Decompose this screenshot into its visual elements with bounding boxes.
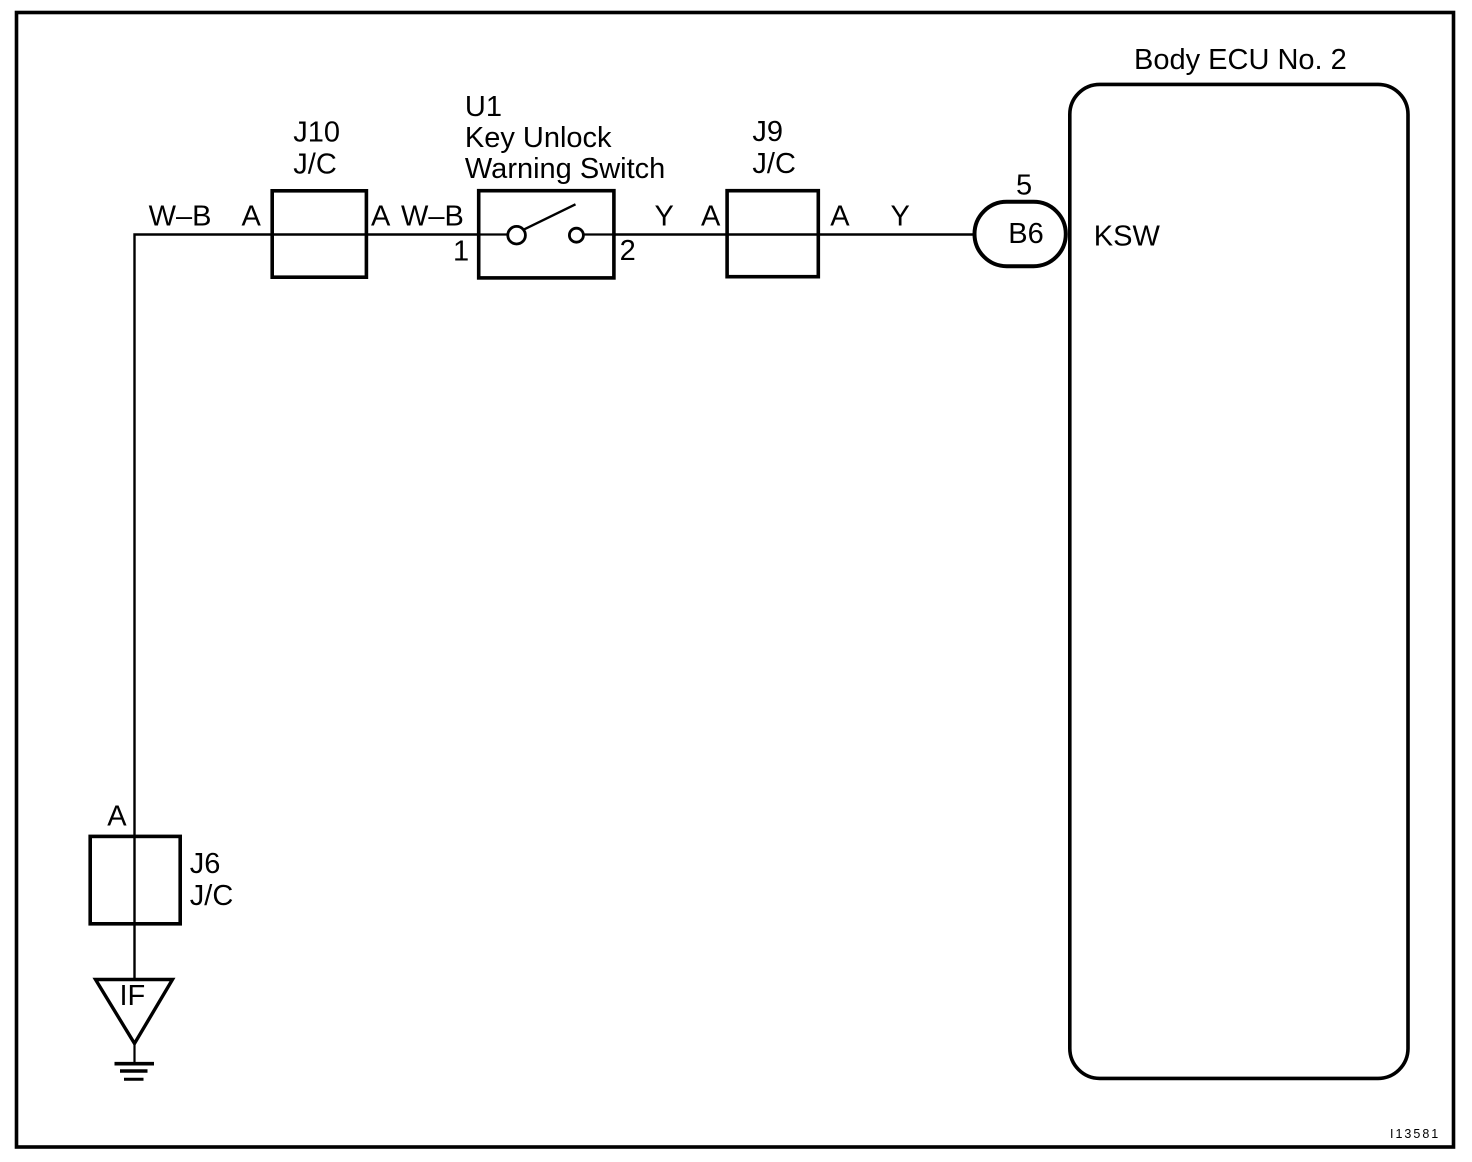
svg-text:KSW: KSW xyxy=(1094,221,1161,253)
svg-text:J/C: J/C xyxy=(752,148,796,180)
svg-text:IF: IF xyxy=(120,980,146,1012)
svg-text:W–B: W–B xyxy=(149,201,212,233)
svg-text:J/C: J/C xyxy=(293,149,337,181)
svg-text:J/C: J/C xyxy=(190,880,234,912)
svg-text:Body ECU No. 2: Body ECU No. 2 xyxy=(1134,44,1347,76)
svg-text:2: 2 xyxy=(620,235,636,267)
svg-text:J6: J6 xyxy=(190,848,221,880)
svg-text:I13581: I13581 xyxy=(1390,1127,1440,1141)
svg-text:1: 1 xyxy=(453,236,469,268)
svg-text:Key Unlock: Key Unlock xyxy=(465,122,612,154)
svg-text:A: A xyxy=(242,201,262,233)
svg-text:J10: J10 xyxy=(293,117,340,149)
svg-text:J9: J9 xyxy=(752,116,783,148)
svg-text:5: 5 xyxy=(1016,170,1032,202)
svg-text:Warning Switch: Warning Switch xyxy=(465,153,665,185)
svg-text:B6: B6 xyxy=(1008,218,1043,250)
svg-text:A: A xyxy=(107,801,127,833)
svg-text:Y: Y xyxy=(891,201,910,233)
svg-text:U1: U1 xyxy=(465,91,502,123)
svg-text:A: A xyxy=(830,201,850,233)
svg-text:A: A xyxy=(701,201,721,233)
svg-text:Y: Y xyxy=(655,201,674,233)
svg-text:W–B: W–B xyxy=(401,201,464,233)
svg-text:A: A xyxy=(371,201,391,233)
